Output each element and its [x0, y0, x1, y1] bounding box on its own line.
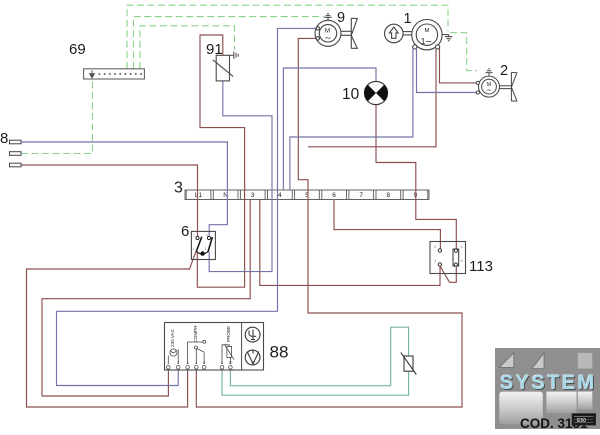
svg-text:5: 5 — [203, 361, 205, 365]
svg-text:COMPR: COMPR — [193, 325, 198, 343]
wire box6 lever to bottom-left loop to 88 t3 — [27, 252, 197, 408]
arrow symbol — [90, 70, 95, 78]
svg-text:3: 3 — [187, 361, 189, 365]
ground link motor 1 to motor 2 — [450, 33, 477, 71]
strip 3 cell labels — [195, 192, 418, 199]
svg-text:M: M — [424, 28, 429, 34]
thermostat button circle — [245, 350, 260, 365]
wire 88 t8 to probe bottom — [222, 370, 409, 396]
svg-text:2: 2 — [177, 361, 179, 365]
wire box6 out to strip 3 cell3 — [197, 200, 244, 288]
svg-text:88: 88 — [270, 343, 289, 362]
wire cell9 to relay 113 coil — [416, 200, 457, 249]
svg-text:9: 9 — [337, 10, 345, 26]
defrost button circle — [245, 327, 260, 342]
wire cell5 to 88 t4 compressor loop — [196, 200, 462, 408]
terminal strip 3 — [185, 190, 429, 200]
terminal circles — [167, 366, 233, 370]
wire cell3 to 88 t1 (230VAC) — [42, 200, 250, 397]
terminal lug blue — [10, 140, 22, 144]
svg-text:SYSTEM: SYSTEM — [500, 372, 597, 394]
wire box6 out to cell4 — [209, 190, 272, 272]
230 VAC lamp symbol — [168, 349, 178, 364]
wire N to box 6 — [209, 200, 227, 237]
wire motor 1 to motor 2 bottom terminal — [417, 49, 477, 93]
svg-text:L1: L1 — [195, 192, 203, 199]
svg-text:2: 2 — [193, 234, 195, 238]
switch levers — [196, 237, 202, 252]
ground 9 — [327, 17, 329, 20]
svg-text:2: 2 — [434, 244, 437, 249]
svg-text:1: 1 — [193, 247, 195, 251]
svg-text:113: 113 — [469, 258, 493, 275]
svg-text:3: 3 — [251, 192, 255, 199]
terminal lug maroon — [10, 163, 22, 167]
ground bus 2: 69 to motor 9 ground — [133, 17, 324, 69]
ground wire from terminals 8 to strip 69 — [21, 79, 93, 154]
wire valve 10 bottom to cell9 — [376, 105, 416, 200]
relay 113 contact lever and wire — [440, 266, 456, 282]
svg-text:1∼: 1∼ — [421, 37, 432, 46]
ground bus 3: 69 to varistor 91 ground — [140, 26, 235, 69]
svg-text:4: 4 — [278, 192, 282, 199]
svg-text:8: 8 — [0, 130, 8, 147]
svg-text:PROBE: PROBE — [226, 326, 231, 342]
ground bus 1: 69 to motor 1 ground — [127, 5, 448, 69]
wire motor 9 to cell4 — [278, 28, 318, 190]
contact dots — [98, 73, 142, 75]
svg-text:3: 3 — [461, 258, 464, 263]
svg-text:91: 91 — [206, 41, 223, 58]
terminal numbers — [167, 361, 232, 365]
svg-text:1: 1 — [434, 258, 437, 263]
wire 88 t10 to probe top — [230, 327, 408, 386]
svg-text:1: 1 — [404, 11, 412, 27]
wire motor 1 to cell5 (compressor line) — [308, 49, 436, 147]
svg-text:6: 6 — [332, 192, 336, 199]
svg-text:3: 3 — [205, 247, 207, 251]
svg-text:8: 8 — [221, 361, 223, 365]
terminal lug green — [10, 152, 22, 156]
svg-text:230 VAC: 230 VAC — [170, 328, 175, 347]
pump circle — [385, 24, 404, 43]
wire motor 9 to cell5 — [298, 38, 318, 199]
svg-text:E50: E50 — [577, 418, 586, 424]
relay coil — [453, 249, 459, 266]
wire terminal 8 to L1 — [21, 165, 198, 236]
svg-text:3: 3 — [174, 180, 183, 197]
bottom terminals — [413, 45, 417, 49]
svg-text:4: 4 — [206, 234, 208, 238]
svg-text:7: 7 — [359, 192, 363, 199]
wire varistor 91 top loop to cell3 — [200, 35, 245, 200]
svg-text:69: 69 — [69, 41, 86, 58]
svg-text:∼: ∼ — [486, 87, 492, 94]
wire motor 1 to motor 2 top terminal — [440, 48, 477, 83]
svg-text:8: 8 — [386, 192, 390, 199]
svg-text:1: 1 — [167, 361, 169, 365]
wire cell4 to 88 t2 — [57, 190, 278, 386]
wire varistor 91 bottom to cell4 — [223, 81, 272, 190]
svg-text:10: 10 — [342, 86, 360, 103]
wire terminal 8 to N — [21, 142, 227, 200]
fan blades 9 — [341, 30, 351, 32]
fan blades 2 — [500, 85, 512, 87]
svg-text:6: 6 — [181, 223, 189, 240]
wire cell3 to relay 113 t1 — [260, 200, 440, 286]
wire motor 1 to cell4 (neutral) — [290, 49, 413, 190]
ground 2 — [488, 73, 490, 76]
svg-text:10: 10 — [228, 361, 232, 365]
wire valve 10 top to cell4 — [283, 68, 376, 190]
wire cell6 to relay 113 t2 — [334, 200, 440, 250]
svg-text:4: 4 — [461, 244, 464, 249]
ground 1 — [442, 34, 449, 36]
compressor relay contact — [188, 340, 206, 364]
svg-text:2: 2 — [500, 63, 508, 79]
probe thermistor symbol — [222, 344, 234, 364]
ground 91 — [230, 52, 239, 59]
svg-text:∼: ∼ — [325, 34, 332, 43]
svg-text:4: 4 — [195, 361, 197, 365]
